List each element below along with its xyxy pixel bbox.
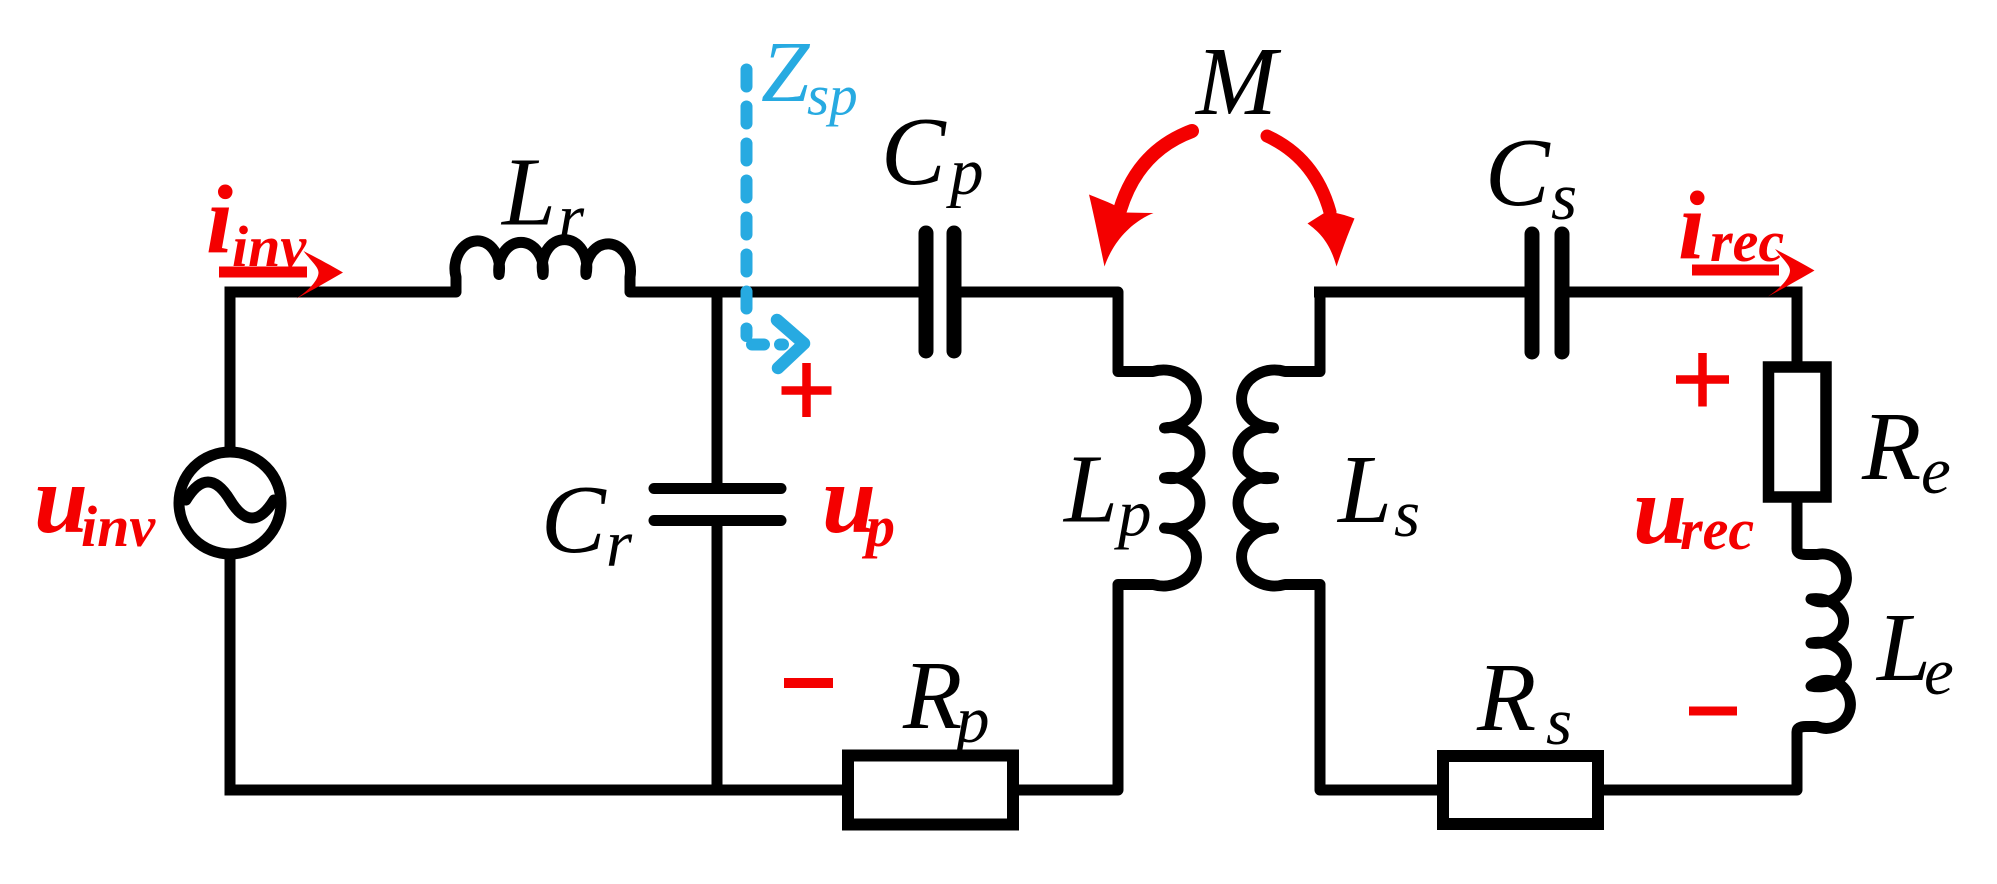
svg-text:L: L xyxy=(1875,594,1931,701)
svg-text:C: C xyxy=(1485,119,1551,226)
svg-text:C: C xyxy=(881,98,947,205)
svg-text:p: p xyxy=(952,683,990,757)
svg-text:e: e xyxy=(1924,635,1954,709)
svg-text:r: r xyxy=(606,507,633,581)
svg-text:u: u xyxy=(1633,457,1687,564)
svg-text:s: s xyxy=(1546,685,1572,759)
svg-text:inv: inv xyxy=(81,494,156,559)
svg-text:rec: rec xyxy=(1710,209,1784,274)
svg-text:p: p xyxy=(946,135,984,209)
svg-text:i: i xyxy=(206,166,233,273)
svg-text:L: L xyxy=(1336,436,1392,543)
svg-text:rec: rec xyxy=(1680,497,1754,562)
svg-text:R: R xyxy=(902,642,962,749)
svg-text:L: L xyxy=(500,139,556,246)
svg-text:u: u xyxy=(34,446,88,553)
svg-text:R: R xyxy=(1476,644,1536,751)
svg-text:e: e xyxy=(1921,434,1951,508)
svg-text:L: L xyxy=(1062,436,1118,543)
svg-text:s: s xyxy=(1551,160,1577,234)
svg-text:M: M xyxy=(1194,28,1282,135)
svg-text:sp: sp xyxy=(807,65,858,128)
svg-text:p: p xyxy=(1114,477,1152,551)
svg-text:s: s xyxy=(1394,477,1420,551)
svg-text:p: p xyxy=(861,494,895,559)
svg-text:R: R xyxy=(1861,393,1921,500)
svg-text:i: i xyxy=(1678,172,1705,279)
svg-text:r: r xyxy=(558,181,585,255)
svg-text:Z: Z xyxy=(761,23,811,120)
svg-text:inv: inv xyxy=(232,214,307,279)
svg-text:C: C xyxy=(541,466,607,573)
